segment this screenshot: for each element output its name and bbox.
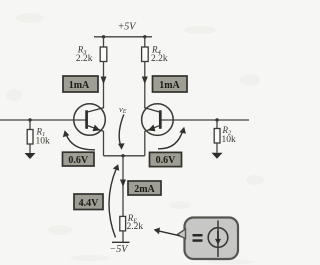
power -5V terminal bar: [112, 241, 130, 243]
resistor R1: [27, 130, 33, 145]
svg-text:1mA: 1mA: [69, 80, 90, 91]
svg-text:10k: 10k: [222, 135, 237, 145]
current source symbol: [208, 221, 228, 258]
svg-text:2mA: 2mA: [134, 184, 155, 195]
node rail-left junction: [102, 35, 105, 38]
label equals sign: [193, 234, 203, 237]
svg-text:2.2k: 2.2k: [76, 54, 93, 64]
svg-text:10k: 10k: [36, 137, 51, 147]
node rail-right junction: [143, 35, 146, 38]
arrow callout to RE: [158, 231, 180, 236]
annotation box 1mA right: [153, 76, 188, 92]
arrow vE to emitter node: [119, 115, 124, 146]
wire R1 to ground: [29, 144, 31, 153]
wire top rail: [94, 36, 152, 38]
wire R2 to ground: [216, 143, 218, 153]
annotation box 1mA left: [63, 76, 98, 92]
arrow VBE right: [158, 131, 183, 149]
resistor R3: [100, 47, 107, 62]
wire R3 to Q1 collector with current arrow: [103, 62, 105, 109]
wire Q1 emitter down: [103, 131, 105, 156]
wire left base: [0, 119, 87, 121]
arrow 4.4V span: [109, 168, 117, 238]
wire junction to R1: [29, 120, 31, 130]
wire Q2 emitter down: [144, 131, 146, 156]
node emitter junction: [121, 154, 124, 157]
wire emitter tie bar: [104, 155, 145, 157]
annotation box 4.4V: [74, 194, 103, 210]
annotation box 0.6V left: [63, 152, 95, 166]
callout equivalent current source bubble: [177, 218, 238, 260]
svg-text:4.4V: 4.4V: [79, 198, 100, 209]
transistor Q1: [74, 104, 106, 136]
wire R4 to Q2 collector with current arrow: [144, 62, 146, 109]
transistor Q2: [142, 104, 174, 136]
svg-text:+5V: +5V: [118, 22, 138, 33]
node R1 junction: [28, 118, 31, 121]
ground right: [212, 153, 223, 159]
arrow VBE left: [66, 134, 95, 150]
wire emitter node to RE with current arrow: [122, 156, 124, 217]
node R2 junction: [215, 118, 218, 121]
svg-text:1mA: 1mA: [159, 80, 180, 91]
annotation box 0.6V right: [150, 152, 182, 166]
wire rail to R3: [103, 37, 105, 47]
ground left: [25, 153, 36, 159]
resistor R4: [142, 47, 149, 62]
svg-text:2.2k: 2.2k: [127, 222, 144, 232]
resistor RE: [120, 216, 126, 231]
wire RE to -5V terminal: [122, 231, 124, 242]
annotation box 2mA: [128, 181, 161, 195]
svg-text:−5V: −5V: [110, 244, 130, 255]
wire right base: [160, 119, 249, 121]
svg-text:2.2k: 2.2k: [151, 54, 168, 64]
svg-text:0.6V: 0.6V: [156, 155, 177, 166]
svg-text:0.6V: 0.6V: [68, 155, 89, 166]
wire rail to R4: [144, 37, 146, 47]
wire junction to R2: [216, 120, 218, 129]
resistor R2: [214, 129, 220, 144]
